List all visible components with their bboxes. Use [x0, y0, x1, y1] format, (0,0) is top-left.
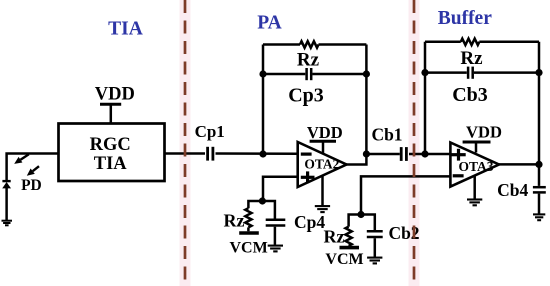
- RGC TIA block U1: [59, 124, 165, 182]
- svg-text:OTA2: OTA2: [304, 156, 339, 171]
- wire buffer feedback left rail: [424, 42, 427, 154]
- node buffer bias junction: [357, 211, 364, 218]
- svg-text:VDD: VDD: [466, 123, 502, 142]
- wire OTA3 inverting input: [361, 176, 450, 214]
- VDD supply (TIA): [95, 85, 135, 124]
- svg-text:VDD: VDD: [307, 123, 343, 142]
- svg-text:Rz: Rz: [324, 227, 345, 247]
- wire OTA3 output: [499, 163, 539, 166]
- VDD supply (OTA3): [463, 123, 502, 153]
- svg-text:Cp3: Cp3: [288, 85, 324, 107]
- svg-text:Cb3: Cb3: [452, 84, 488, 106]
- svg-text:RGC: RGC: [90, 135, 131, 155]
- wire junction to Cp4: [262, 201, 275, 219]
- node buffer output junction: [535, 161, 542, 168]
- ground (OTA3): [467, 200, 482, 206]
- node PA output junction: [363, 150, 370, 157]
- wire Cp1 to OTA2 inverting input: [216, 152, 298, 155]
- wire RGC TIA input to photodiode: [7, 154, 59, 181]
- svg-text:Cb1: Cb1: [371, 125, 402, 145]
- stage boundary dashed line 2 (PA/Buffer): [409, 0, 420, 286]
- wire Cb2 to ground: [374, 238, 377, 257]
- wire output to Cb4: [538, 164, 541, 186]
- resistor Rz (PA bias): [224, 208, 252, 231]
- svg-text:TIA: TIA: [94, 154, 128, 174]
- wire OTA2 output: [347, 154, 367, 165]
- capacitor Cb4: [497, 180, 546, 200]
- svg-text:Rz: Rz: [297, 50, 320, 71]
- svg-text:PD: PD: [21, 177, 42, 194]
- node PA bias junction: [259, 197, 266, 204]
- wire PA feedback left rail: [262, 45, 265, 155]
- wire junction to Rz (PA bias): [248, 201, 262, 208]
- svg-text:Cb4: Cb4: [497, 180, 528, 200]
- wire OTA2 non-inverting input: [263, 177, 298, 201]
- stage boundary dash stroke 2 (PA/Buffer): [413, 0, 416, 286]
- resistor Rz (buffer bias): [324, 227, 352, 247]
- wire Cp4 to ground: [274, 227, 277, 245]
- resistor Rz (PA feedback): [263, 41, 366, 70]
- svg-text:VCM: VCM: [229, 239, 267, 256]
- svg-text:OTA3: OTA3: [458, 159, 493, 174]
- ground (Cb2): [367, 258, 382, 264]
- wire RGC TIA output to Cp1: [165, 152, 206, 155]
- svg-text:Cp1: Cp1: [195, 122, 225, 141]
- VCM terminal (buffer bias): [325, 248, 363, 268]
- capacitor Cp3 (PA feedback): [263, 68, 366, 107]
- resistor Rz (buffer feedback): [425, 39, 539, 69]
- wire OTA3 ground stem: [473, 175, 476, 199]
- ground (OTA2): [315, 206, 330, 212]
- wire buffer feedback right rail: [538, 42, 541, 165]
- node buffer input junction: [421, 150, 428, 157]
- node PA feedback cap right junction: [363, 70, 370, 77]
- wire Cb4 to ground: [538, 194, 541, 214]
- node buffer feedback cap right junction: [535, 69, 542, 76]
- ground (Cp4): [268, 246, 283, 252]
- ground (Cb4): [533, 214, 545, 220]
- svg-text:TIA: TIA: [108, 19, 143, 40]
- VDD supply (OTA2): [307, 123, 343, 154]
- wire junction to Cb2: [361, 215, 375, 231]
- light arrow 2 into PD: [27, 166, 39, 176]
- capacitor Cb3 (buffer feedback): [425, 67, 539, 106]
- light arrow 1 into PD: [14, 154, 29, 164]
- node PA inverting input junction: [259, 150, 266, 157]
- node buffer feedback cap left junction: [421, 69, 428, 76]
- node PA feedback cap left junction: [259, 70, 266, 77]
- wire OTA2 ground stem: [321, 175, 324, 205]
- wire junction to Rz (buffer bias): [349, 215, 361, 227]
- svg-text:VDD: VDD: [95, 85, 135, 105]
- stage boundary dashed line 1 (TIA/PA): [180, 0, 191, 286]
- svg-text:Cp4: Cp4: [294, 212, 325, 232]
- wire PD anode to ground: [5, 188, 8, 221]
- stage boundary dash stroke 1 (TIA/PA): [184, 0, 187, 286]
- capacitor Cb1: [371, 125, 406, 161]
- capacitor Cb2: [367, 223, 420, 243]
- svg-text:VCM: VCM: [325, 251, 363, 268]
- VCM terminal (PA bias): [229, 233, 267, 256]
- svg-text:PA: PA: [257, 13, 282, 34]
- op-amp OTA2: [298, 142, 347, 187]
- wire PA feedback right rail: [365, 45, 368, 155]
- capacitor Cp4: [266, 212, 326, 232]
- svg-text:Buffer: Buffer: [438, 8, 492, 29]
- capacitor Cp1: [195, 122, 225, 161]
- op-amp OTA3: [450, 143, 499, 187]
- svg-text:Rz: Rz: [224, 211, 245, 231]
- photodiode PD: [2, 181, 11, 188]
- ground (PD): [2, 221, 13, 226]
- svg-text:Rz: Rz: [460, 48, 483, 69]
- wire Cb1 to OTA3 non-inverting input: [409, 153, 450, 156]
- wire PA output to Cb1: [366, 153, 399, 156]
